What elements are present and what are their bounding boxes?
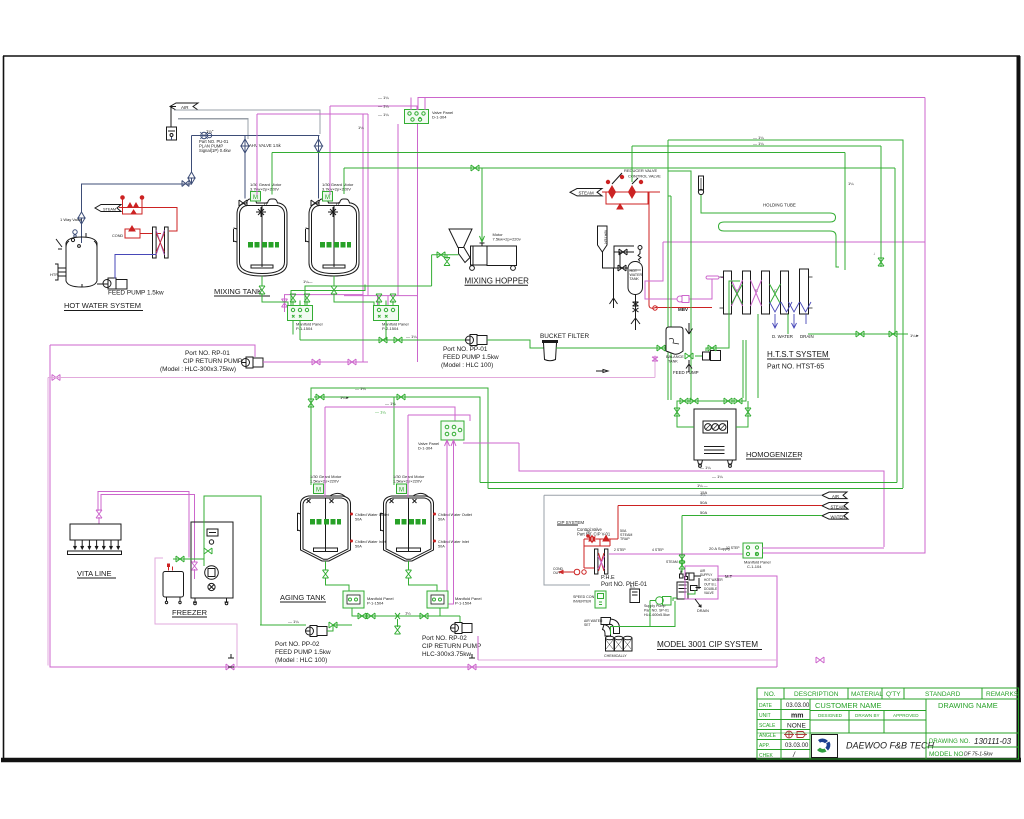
HTST [570,135,925,488]
wire green pump inlet [673,598,677,601]
wire green panel B down to pump line [385,321,387,341]
aging tank 2 [381,493,434,561]
wire blue return to pump [115,255,156,279]
wire red into PHE [584,567,594,569]
cip tank magenta box [685,566,718,599]
wire gray air y495 [544,494,822,496]
wire green tube inlet [701,195,724,213]
svg-text:TIC: TIC [586,530,592,534]
wire green top y146 [632,145,881,147]
strainer bottom [631,318,640,330]
svg-text:D. WATER: D. WATER [772,334,793,339]
label ticks y407 [375,401,396,415]
svg-text:C-1-104: C-1-104 [747,564,762,569]
mixing tank A motor label [250,182,282,191]
valve panel D-1-304 top [405,110,429,124]
svg-text:AGING TANK: AGING TANK [280,593,326,602]
green aging tank2 feed [393,397,395,485]
step labels [614,546,740,552]
wire magenta box y576 x719-777 [719,576,777,667]
svg-text:50A: 50A [438,544,445,548]
cross junction valve [395,613,400,619]
label valve panel aging [418,441,439,450]
svg-text:1¼►: 1¼► [910,333,920,338]
svg-text:P.H.E: P.H.E [601,575,615,581]
svg-text:Part NO. HTST-65: Part NO. HTST-65 [767,364,824,371]
label valve panel top [432,110,453,119]
svg-text:MODEL NO: MODEL NO [929,751,963,758]
PHE plates [595,549,598,574]
svg-text:P-1-1504: P-1-1504 [296,326,313,331]
mixing tank B [306,199,360,276]
svg-text:Port NO. PP-02: Port NO. PP-02 [275,641,320,648]
svg-text:AIR: AIR [832,494,839,499]
PHE weave [599,553,605,571]
svg-text:M.T: M.T [725,574,733,579]
svg-text:DESCRIPTION: DESCRIPTION [794,691,839,698]
svg-text:HTR: HTR [50,272,58,277]
aging manifold panel 1 [343,591,364,608]
mixing tank B top-left nozzle valve [311,200,319,206]
small pump on magenta [677,296,689,303]
svg-text:— 1¼: — 1¼ [355,386,366,391]
svg-text:MATERIAL: MATERIAL [851,691,883,698]
svg-text:50A: 50A [355,517,362,521]
wire green homogenizer feed right [743,340,746,398]
wire green right riser x881 [880,146,882,267]
cip tank top fittings [680,571,689,580]
wire magenta pump suction y362 [263,361,368,363]
valve on hot water tank inlet [78,212,85,224]
svg-text:DF 75-1-5kw: DF 75-1-5kw [964,752,993,758]
svg-text:DRAWN BY: DRAWN BY [855,713,880,718]
customer name section [925,699,927,733]
wire magenta feed tank1 [324,407,326,497]
wire green hopper inlet [432,254,459,256]
wire green left loop top [668,171,691,196]
condensate pump [566,569,586,575]
mixing hopper chute [459,248,471,263]
svg-text:1¼—: 1¼— [303,279,313,284]
label PP-02 [275,641,331,664]
elbow fittings [601,618,620,637]
cip tank [677,582,688,599]
label ticks y471 [697,465,723,497]
flow capsule symbol [706,276,719,279]
wire navy tank to pump [82,284,108,287]
HTST plate pack [720,269,813,314]
valve on pink left [52,375,60,381]
svg-text:CUSTOMER NAME: CUSTOMER NAME [815,701,882,710]
wire magenta panel out y443 [463,442,519,444]
logo box [812,735,838,758]
mixing hopper funnel [449,229,472,248]
svg-text:NONE: NONE [787,723,806,730]
svg-text:3.7kw×2p×220V: 3.7kw×2p×220V [250,186,279,191]
wire green left loop x671 [670,196,672,400]
wire magenta header y114 [257,113,368,115]
svg-text:HLC-300x3.75kw: HLC-300x3.75kw [422,651,471,658]
valve on water line [618,265,626,271]
valve on green y168 [471,165,479,171]
gray cip enclosure [544,495,590,585]
risers above panel A [293,301,307,306]
svg-text:MBV: MBV [678,307,688,312]
wire green panel2 drop [439,608,441,616]
STEAM arrow right [822,503,848,510]
svg-text:TANK: TANK [630,277,640,281]
plan pump PU-01 [200,132,212,139]
svg-text:VALVE: VALVE [704,591,714,595]
wire green panel A down to pump line [293,321,300,341]
red steam manifold [602,175,660,209]
pink flow tick [596,370,608,373]
sight glass ticks [56,239,62,249]
svg-text:P-1-1504: P-1-1504 [455,600,472,605]
svg-text:Chilled Water Inlet: Chilled Water Inlet [355,540,387,544]
valve into hopper [437,252,445,258]
control box [630,589,640,603]
label RP-02 [422,635,481,658]
svg-text:Q'TY: Q'TY [886,691,901,698]
svg-text:OUT B.L: OUT B.L [704,582,717,586]
strainer left [610,268,618,308]
valves on y334 [856,331,864,337]
svg-text:AIR: AIR [181,105,189,110]
cip labels right [700,569,723,595]
freezer display [207,529,218,536]
label cond [553,567,564,575]
wire magenta riser x398 [397,124,399,296]
wire red riser to heat exchanger [165,208,177,232]
wire green x897 riser [896,334,898,483]
valve on hot water vertical [188,172,195,184]
label PU-01 [199,139,232,153]
svg-text:BUCKET FILTER: BUCKET FILTER [540,333,590,340]
hopper top stub [480,243,485,246]
svg-text:(Model : HLC 100): (Model : HLC 100) [275,657,327,664]
svg-text:STEAM: STEAM [666,560,678,564]
svg-text:50A: 50A [438,517,445,521]
wire green long y152 [272,152,845,154]
wire green tank drain loop [650,601,675,627]
air filter regulator [167,127,177,140]
AIR supply pennant arrow [170,103,198,110]
svg-text:DRAWING NO.: DRAWING NO. [929,739,970,745]
panel B riser valves [376,294,382,302]
wire navy down from header to hot water [82,136,192,244]
wire magenta drop tank B [329,106,331,195]
tank top fittings [71,233,86,247]
mix small tank [163,572,184,598]
feed pump symbol [97,278,127,289]
svg-text:03.03.00: 03.03.00 [785,743,809,749]
wire green rp02 drop [459,616,461,622]
wire gray air line 1 [174,110,320,134]
valve on tank A drop [241,139,249,153]
manifold panel C-1-104 [743,543,763,558]
svg-text:WATER: WATER [831,515,846,520]
svg-text:APP.: APP. [759,743,770,749]
svg-text:P-1-1504: P-1-1504 [367,600,384,605]
svg-text:CHEK: CHEK [759,753,774,759]
daewoo swirl logo [815,739,830,753]
svg-text:SPEED CON: SPEED CON [573,595,595,599]
svg-text:NO.: NO. [764,691,776,698]
wire magenta riser x368 [367,114,369,296]
wire red condensate riser [649,192,658,308]
svg-text:d: d [264,202,267,208]
svg-text:REMARKS: REMARKS [986,691,1019,698]
AIR arrow right [822,492,847,499]
label RP-01 [160,350,242,373]
hot water tank [66,237,97,287]
valve tank B outlet [331,286,337,294]
svg-text:BALANCE: BALANCE [666,355,684,359]
label aging panel 1 [367,596,394,605]
wire magenta y294.6 [285,295,364,312]
svg-text:(Model : HLC-300x3.75kw): (Model : HLC-300x3.75kw) [160,366,236,373]
svg-text:1¼►: 1¼► [340,395,350,400]
wire magenta freezer drops [195,556,197,558]
wire magenta right riser x925 [762,98,925,554]
wire green x691 drop [690,175,692,400]
valve on top pipe [619,249,627,255]
HOTWATER [50,196,177,311]
freezer lower circle [208,583,215,590]
valve panel D-1-304 aging [441,421,464,440]
svg-text:AHV VALVE 1.5k: AHV VALVE 1.5k [249,143,282,148]
svg-text:DRAIN: DRAIN [697,609,709,613]
valves on homogenizer loop [680,398,688,404]
mixing hopper body [487,246,517,266]
svg-text:TRAP: TRAP [620,537,630,541]
wire magenta panel riser x447 [445,440,450,600]
svg-text:— 1¼: — 1¼ [753,135,764,140]
svg-text:MIXING TANK: MIXING TANK [214,287,262,296]
right info column [925,733,927,759]
wire green pump outlet riser [695,281,740,356]
wire gray air line 3 [178,119,248,135]
svg-text:CONTROL VALVE: CONTROL VALVE [628,174,661,179]
svg-text:— 1¼: — 1¼ [375,410,386,415]
svg-text:DAEWOO F&B TECH: DAEWOO F&B TECH [846,741,935,751]
valve after pp02 [329,622,337,628]
title block header row lines [757,698,1018,700]
hot water make-up piping [614,246,634,268]
wire green feed pump header y340 [300,339,467,341]
svg-text:HOT WATER: HOT WATER [704,578,723,582]
svg-text:M: M [399,488,404,494]
pump PP-02 [306,626,328,637]
valves on y362 [312,359,320,365]
wire vita drop [98,517,100,524]
svg-text:— 1¼: — 1¼ [712,474,723,479]
aging tank 1 [298,493,351,561]
wire magenta y415 [408,415,470,421]
wire magenta panel riser x453.5 [446,440,456,604]
panel A riser valves [290,294,296,302]
svg-text:Port NO. PP-01: Port NO. PP-01 [443,346,488,353]
svg-text:MODEL 3001 CIP SYSTEM: MODEL 3001 CIP SYSTEM [657,640,758,649]
plate heat exchanger hot water [153,227,169,258]
svg-text:20 A Supply: 20 A Supply [709,546,730,551]
red cip manifold [584,535,618,568]
label inverter [573,595,595,603]
supply pump [656,597,671,606]
svg-text:M: M [253,195,258,201]
wire magenta header y106 [330,106,417,110]
valve on tank-freezer line [176,556,184,562]
angle projection symbols [784,731,807,738]
valves on y340 [379,337,387,343]
wire green drop hopper [480,168,485,242]
wire pink freezer drain [155,558,237,668]
MIDBAND [48,345,824,670]
svg-text:SCALE: SCALE [759,723,776,729]
label reducer/control valve [624,168,661,179]
bucket filter [542,342,558,361]
wire red condensate to plates [658,307,712,309]
magenta weave sections [732,280,762,306]
risers above panel B [379,301,393,306]
svg-text:— 1¼: — 1¼ [288,619,299,624]
hopper drain valve [446,255,448,259]
svg-text:D-1-304: D-1-304 [432,114,447,119]
label aging panel 2 [455,596,482,605]
svg-text:Chilled Water Outlet: Chilled Water Outlet [355,513,390,517]
wire green pump outlet [650,600,656,602]
svg-text:M: M [325,195,330,201]
thermometer on tube inlet [698,176,703,195]
wire green long y488.5 [488,488,903,490]
mixing hopper wheels [470,266,475,271]
svg-text:STEAM: STEAM [831,505,846,510]
valves on y616 [358,613,366,619]
svg-text:— 1¼: — 1¼ [700,465,711,470]
drain diagonal [695,599,701,607]
wire magenta freezer internal [194,569,196,579]
wire magenta long y471 [519,443,884,547]
svg-text:mm: mm [791,713,803,720]
TITLEBLOCK [757,688,1019,759]
wire navy supply header [172,136,320,141]
gauge + needle [638,246,642,262]
vita feed valve [96,510,102,518]
svg-text:Port NO. RP-02: Port NO. RP-02 [422,635,467,642]
valves on y397 [316,394,324,400]
mix tank feet [165,597,181,604]
wire green right riser x845 [844,153,846,271]
svg-text:D-1-304: D-1-304 [418,445,433,450]
flow tick labels top headers [358,95,389,130]
mixing tank A outlet [262,276,288,306]
wire magenta dash-dot into plates [712,277,723,279]
wire magenta pump up to plates [689,278,712,300]
svg-text:↓: ↓ [873,251,875,256]
svg-text:1 Way Valve: 1 Way Valve [60,217,83,222]
svg-text:HOLDING TUBE: HOLDING TUBE [763,203,796,208]
svg-text:ANGLE: ANGLE [759,733,777,739]
steam trap [653,306,657,310]
label manifold panel B [382,322,409,331]
htst feed pump [703,351,721,361]
label manifold panel A [296,322,323,331]
cip internal bits [689,573,701,591]
svg-text:TANK: TANK [668,359,678,363]
wire pink y660 [478,659,777,661]
mixing tank B korean name blocks [320,242,351,248]
valve tank2 outlet [406,570,412,578]
valve cluster at freezer inlet [204,548,212,554]
svg-text:SET: SET [584,623,591,627]
aging tank 2 chilled water ports [433,513,436,543]
holding tube serpentine [719,213,840,267]
svg-text:FEED PUMP 1.5kw: FEED PUMP 1.5kw [275,649,331,656]
mixing tank A top-left nozzle valve [239,200,247,206]
svg-text:— 1¼: — 1¼ [753,141,764,146]
wire water banner drop [603,252,629,268]
strainer above balance tank [686,323,693,334]
heater element left [50,264,66,280]
label hopper motor [493,232,521,241]
balance tank outlet valve [685,353,693,359]
wire green homogenizer feed left [677,398,746,427]
svg-text:50A: 50A [355,544,362,548]
svg-text:FREEZER: FREEZER [172,608,208,617]
wire green hopper inlet riser [431,255,433,286]
svg-text:HOMOGENIZER: HOMOGENIZER [746,450,803,459]
wire green canister loop [611,601,651,635]
valves on water drop [679,555,685,563]
wire green long y482.5 [480,482,897,484]
left data columns grid [780,699,782,759]
wire magenta feed tank2 [407,415,409,497]
size labels on utility lines [700,490,707,515]
mix tank red fittings [167,564,173,571]
wire magenta riser x417 [417,124,419,362]
svg-text:CIP SYSTEM: CIP SYSTEM [557,520,584,525]
freezer small circle [209,540,213,544]
magenta pasteurize loop [645,242,677,299]
wire magenta y295.6 panelB drops [344,296,418,306]
svg-text:HOT WATER SYSTEM: HOT WATER SYSTEM [64,301,141,310]
mixing tank A motor M [251,192,261,202]
wire pink left riser x48 [47,378,49,666]
CIP return pump RP-01 [242,357,264,368]
blue cooling sections [770,302,812,328]
svg-text:DRAWING NAME: DRAWING NAME [938,701,998,710]
svg-text:STEAM: STEAM [579,191,594,196]
wire air arrow drop [171,107,176,127]
wire green top y140 [668,140,903,488]
wire green drop tank B [343,168,345,194]
wire pink long return y377 [48,377,655,379]
aging tank 2 motor [397,484,407,494]
wire navy drop to mixing tank B [318,136,320,199]
svg-text:1¼: 1¼ [848,181,854,186]
svg-text:d: d [336,202,339,208]
aging tank 2 motor label [393,474,425,483]
svg-text:FEED PUMP: FEED PUMP [673,370,699,375]
wire magenta htst supply y576 left part [718,575,719,577]
vent lines [704,447,725,454]
AGING [260,401,519,664]
gauge cluster box [703,421,728,433]
svg-text:CHEMICALLY: CHEMICALLY [604,654,627,658]
wire bucket filter outlet [556,347,666,349]
drain arrow left [559,571,566,574]
